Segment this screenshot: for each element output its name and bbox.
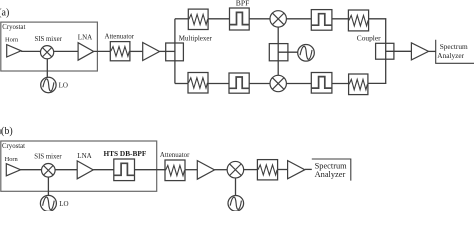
svg-text:Attenuator: Attenuator bbox=[160, 152, 190, 159]
upper band-pass filter BPF (a) bbox=[230, 8, 250, 30]
lower mixer (a) bbox=[270, 75, 286, 91]
attenuator 2 (b) bbox=[257, 160, 277, 180]
wire SIS mixer to LNA (a) bbox=[54, 50, 78, 52]
SIS mixer (a) bbox=[41, 46, 54, 59]
SIS mixer (b) bbox=[42, 164, 56, 178]
vertical wire inside splitter (a) bbox=[277, 44, 279, 61]
lower right attenuator (a) bbox=[349, 74, 368, 95]
wire to upper attenuator (a) bbox=[175, 18, 188, 20]
LO oscillator (b) bbox=[40, 195, 56, 211]
svg-text:Spectrum: Spectrum bbox=[440, 42, 468, 51]
svg-text:LNA: LNA bbox=[78, 34, 92, 42]
multiplexer branch vertical wire (a) bbox=[174, 19, 176, 84]
upper right attenuator (a) bbox=[348, 10, 368, 31]
cryostat box (b) bbox=[1, 141, 157, 191]
svg-text:Horn: Horn bbox=[5, 37, 19, 44]
wire mixer to attenuator 2 (b) bbox=[244, 169, 258, 171]
wire upper right attenuator to coupler corner (a) bbox=[369, 18, 387, 20]
wire lower BPF to lower mixer (a) bbox=[249, 83, 270, 85]
svg-text:(a): (a) bbox=[0, 7, 9, 18]
wire attenuator 2 to amplifier 2 (b) bbox=[278, 169, 288, 171]
wire upper attenuator to BPF (a) bbox=[208, 18, 229, 20]
svg-text:Analyzer: Analyzer bbox=[437, 51, 464, 60]
coupler box (a) bbox=[376, 43, 394, 59]
LO oscillator (a) bbox=[41, 77, 56, 92]
lower band-pass filter 2 (a) bbox=[311, 73, 332, 94]
horn antenna (b) bbox=[6, 164, 20, 176]
wire BPF to upper mixer (a) bbox=[249, 18, 270, 20]
amplifier A1 (a) bbox=[143, 43, 160, 61]
svg-text:LO: LO bbox=[59, 200, 68, 208]
wire LNA to attenuator (a) bbox=[94, 50, 111, 52]
svg-text:SIS mixer: SIS mixer bbox=[34, 154, 62, 161]
upper band-pass filter 2 (a) bbox=[311, 10, 332, 31]
wire amplifier to spectrum analyzer (a) bbox=[429, 50, 436, 52]
multiplexer box (a) bbox=[166, 43, 184, 61]
vertical wire inside coupler (a) bbox=[385, 43, 387, 59]
svg-text:Attenuator: Attenuator bbox=[105, 34, 135, 41]
svg-text:Cryostat: Cryostat bbox=[2, 143, 25, 150]
svg-text:Multiplexer: Multiplexer bbox=[179, 35, 213, 43]
wire SIS mixer to LO (b) bbox=[47, 177, 49, 196]
horn antenna (a) bbox=[7, 45, 21, 57]
svg-text:SIS mixer: SIS mixer bbox=[35, 36, 63, 43]
output amplifier (a) bbox=[411, 43, 428, 60]
spectrum analyzer box (b) bbox=[312, 159, 351, 181]
wire lower mixer to lower filter 2 (a) bbox=[286, 83, 311, 85]
lower attenuator (a) bbox=[188, 73, 208, 94]
spectrum analyzer box (a) bbox=[436, 40, 474, 64]
wire horn to SIS mixer (b) bbox=[21, 169, 42, 171]
wire coupler to output amplifier (a) bbox=[386, 50, 412, 52]
svg-text:LNA: LNA bbox=[77, 152, 91, 160]
second LO oscillator (a) bbox=[298, 45, 315, 62]
wire amplifier to mixer (b) bbox=[215, 169, 228, 171]
wire to lower attenuator (a) bbox=[175, 83, 188, 85]
wire horn to SIS mixer (a) bbox=[21, 50, 40, 52]
wire lower filter 2 to lower right attenuator (a) bbox=[332, 83, 349, 85]
vertical wire down to coupler (a) bbox=[385, 18, 387, 43]
LNA amplifier (a) bbox=[78, 43, 94, 61]
wire HTS DB-BPF to attenuator (b) bbox=[135, 169, 166, 171]
svg-text:Coupler: Coupler bbox=[357, 33, 381, 42]
svg-text:Analyzer: Analyzer bbox=[315, 170, 346, 179]
svg-text:Horn: Horn bbox=[5, 156, 19, 163]
cryostat box (a) bbox=[1, 22, 98, 71]
wire lower right attenuator to coupler corner (a) bbox=[368, 82, 386, 84]
amplifier B2 (b) bbox=[288, 161, 305, 179]
crop artifact mark bbox=[0, 129, 2, 134]
mixer (b) bbox=[227, 161, 244, 178]
LNA amplifier (b) bbox=[77, 161, 93, 179]
wire lower attenuator to lower BPF (a) bbox=[208, 83, 229, 85]
svg-text:(b): (b) bbox=[1, 126, 13, 137]
wire SIS mixer to LO (a) bbox=[46, 59, 48, 78]
amplifier B1 (b) bbox=[197, 161, 214, 180]
wire upper mixer to splitter (a) bbox=[277, 27, 279, 43]
wire splitter to lower mixer (a) bbox=[277, 61, 279, 76]
wire SIS mixer to LNA (b) bbox=[55, 169, 77, 171]
attenuator (b) bbox=[165, 160, 185, 181]
second LO oscillator (b) bbox=[228, 196, 244, 212]
LO splitter box (a) bbox=[269, 44, 288, 61]
vertical wire up to coupler (a) bbox=[385, 59, 387, 84]
upper attenuator (a) bbox=[188, 9, 208, 29]
wire attenuator to amplifier (a) bbox=[130, 50, 143, 52]
wire attenuator to amplifier (b) bbox=[185, 169, 197, 171]
wire amplifier 2 to spectrum analyzer (b) bbox=[305, 168, 312, 170]
wire mixer to LO 2 (b) bbox=[235, 178, 237, 196]
wire upper filter 2 to upper right attenuator (a) bbox=[332, 18, 349, 20]
svg-text:Cryostat: Cryostat bbox=[2, 24, 25, 31]
wire LNA to HTS DB-BPF (b) bbox=[93, 169, 114, 171]
svg-text:BPF: BPF bbox=[236, 0, 250, 7]
svg-text:LO: LO bbox=[59, 81, 68, 89]
HTS DB-BPF filter (b) bbox=[114, 159, 135, 181]
lower band-pass filter BPF (a) bbox=[229, 73, 249, 93]
svg-text:HTS DB-BPF: HTS DB-BPF bbox=[104, 149, 147, 158]
attenuator (a) bbox=[110, 42, 130, 61]
wire upper mixer to upper filter 2 (a) bbox=[286, 18, 311, 20]
upper mixer (a) bbox=[270, 11, 286, 27]
wire amplifier to multiplexer (a) bbox=[160, 50, 175, 52]
wire splitter to oscillator (a) bbox=[278, 51, 298, 53]
